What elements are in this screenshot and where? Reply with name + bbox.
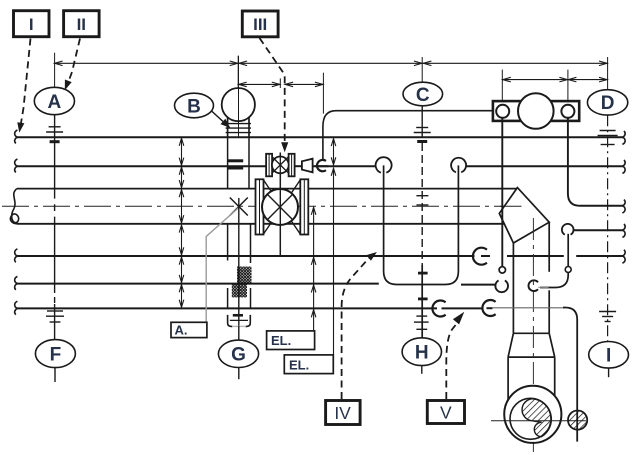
svg-text:III: III [253, 15, 267, 34]
svg-text:EL.: EL. [289, 357, 309, 372]
svg-text:I: I [29, 15, 34, 34]
svg-text:G: G [231, 345, 246, 366]
svg-text:V: V [440, 403, 452, 423]
svg-text:D: D [601, 93, 615, 114]
svg-text:II: II [77, 15, 86, 34]
svg-text:A: A [48, 92, 62, 113]
svg-text:C: C [416, 85, 430, 106]
svg-text:B: B [187, 96, 201, 117]
svg-text:F: F [50, 344, 62, 365]
svg-text:A.: A. [175, 323, 188, 338]
svg-text:EL.: EL. [271, 333, 291, 348]
svg-text:I: I [606, 346, 611, 367]
svg-text:H: H [415, 343, 429, 364]
svg-text:IV: IV [334, 403, 351, 423]
